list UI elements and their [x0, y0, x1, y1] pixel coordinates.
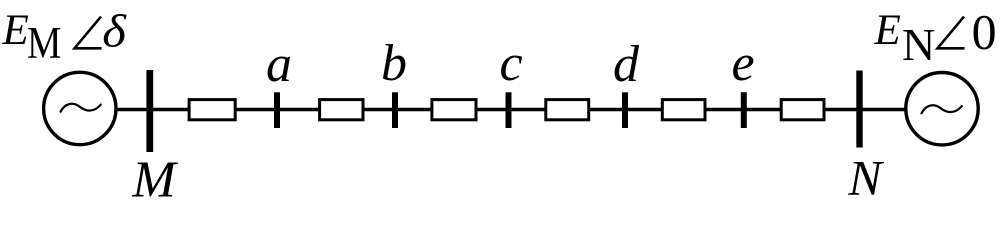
impedance box 6 (e-N) — [781, 100, 824, 120]
wire main transmission line M-N — [114, 108, 905, 111]
svg-text:0: 0 — [972, 4, 997, 60]
label EN: angle symbol — [938, 17, 965, 49]
svg-text:a: a — [266, 36, 292, 93]
svg-text:δ: δ — [102, 4, 127, 57]
node tick c — [506, 92, 512, 128]
source EM sine symbol — [61, 104, 101, 112]
svg-text:M: M — [131, 152, 178, 208]
source EN generator circle — [906, 73, 978, 145]
svg-text:N: N — [902, 19, 935, 70]
svg-text:M: M — [27, 18, 61, 69]
node tick a — [274, 92, 280, 128]
svg-text:e: e — [731, 35, 754, 92]
svg-text:N: N — [847, 150, 884, 206]
source EN sine symbol — [922, 105, 962, 113]
impedance box 3 (b-c) — [432, 100, 476, 120]
impedance box 2 (a-b) — [320, 100, 363, 120]
bus bar M — [146, 70, 153, 152]
svg-text:c: c — [499, 35, 522, 92]
node tick d — [622, 92, 628, 128]
source EM generator circle — [44, 72, 116, 144]
bus bar N — [856, 71, 862, 148]
impedance box 4 (c-d) — [546, 100, 589, 120]
svg-text:E: E — [874, 7, 901, 54]
impedance box 1 (M-a) — [189, 100, 235, 120]
node tick e — [741, 92, 747, 128]
svg-text:E: E — [2, 7, 29, 54]
impedance box 5 (d-e) — [662, 100, 705, 120]
svg-text:b: b — [381, 35, 407, 92]
node tick b — [392, 92, 398, 128]
label EM: angle symbol — [75, 17, 102, 49]
svg-text:d: d — [613, 36, 640, 93]
